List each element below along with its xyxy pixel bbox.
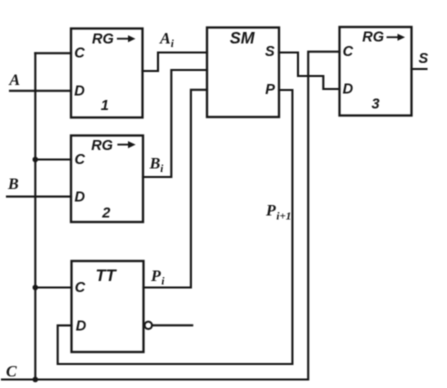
RG2 label RG with arrow — [91, 138, 135, 154]
node label Bi — [149, 156, 165, 175]
wire: bus branch to TT C — [35, 286, 71, 288]
SM pin S — [265, 44, 275, 60]
trigger TT box — [72, 261, 144, 352]
RG2 pin D — [75, 189, 86, 205]
wire: SM carry output P feedback to TT D — [58, 90, 293, 364]
wire: TT inverted output stub — [152, 324, 192, 326]
junction at RG2 C branch — [33, 157, 39, 163]
RG1 number 1 — [101, 98, 109, 114]
svg-text:C: C — [6, 364, 17, 381]
input label A — [8, 72, 20, 89]
register RG1 box — [71, 29, 143, 118]
svg-text:RG: RG — [362, 30, 384, 46]
svg-text:D: D — [74, 84, 85, 100]
svg-text:A: A — [159, 30, 171, 47]
RG1 pin C — [74, 46, 85, 62]
svg-text:B: B — [149, 156, 161, 173]
RG2 number 2 — [101, 206, 110, 222]
svg-text:D: D — [343, 82, 354, 98]
wire: RG1 output Ai to SM input 1 — [143, 53, 208, 72]
RG3 pin C — [343, 44, 354, 60]
svg-text:P: P — [265, 82, 275, 98]
TT inverted output bubble — [145, 322, 152, 329]
svg-text:A: A — [8, 72, 20, 89]
svg-text:S: S — [265, 44, 275, 60]
svg-text:C: C — [74, 46, 85, 62]
svg-text:i+1: i+1 — [276, 211, 291, 223]
svg-text:D: D — [76, 319, 87, 335]
TT pin C — [75, 280, 86, 296]
svg-text:C: C — [75, 280, 86, 296]
svg-text:SM: SM — [230, 29, 256, 47]
svg-text:TT: TT — [96, 267, 118, 285]
svg-text:RG: RG — [91, 138, 113, 154]
wire: input B to RG2 D — [7, 196, 71, 198]
wire: bus branch to RG2 C — [35, 158, 71, 160]
TT pin D — [76, 319, 87, 335]
wire: input A to RG1 D — [10, 90, 71, 92]
svg-text:C: C — [343, 44, 354, 60]
svg-text:1: 1 — [101, 98, 109, 114]
svg-text:3: 3 — [372, 97, 380, 113]
wire: bus branch to RG1 C — [35, 52, 71, 54]
RG3 number 3 — [372, 97, 380, 113]
register RG2 box — [71, 136, 143, 223]
wire: SM output S staircase to RG3 D — [279, 53, 340, 90]
node label Pi — [150, 268, 165, 288]
junction at TT C branch — [33, 285, 39, 291]
RG1 label RG with arrow — [92, 32, 135, 48]
wire: clock C bottom run then riser to RG3 C — [2, 52, 340, 380]
node label Pi+1 — [265, 203, 291, 223]
node label Ai — [159, 30, 175, 50]
RG1 pin D — [74, 84, 85, 100]
RG3 label RG with arrow — [362, 30, 405, 46]
RG2 pin C — [75, 152, 86, 168]
junction of bus with clock C bottom run — [33, 377, 39, 383]
SM pin P — [265, 82, 275, 98]
svg-text:D: D — [75, 189, 86, 205]
input label C — [6, 364, 17, 381]
svg-text:P: P — [265, 203, 276, 220]
RG3 pin D — [343, 82, 354, 98]
output label S — [419, 51, 429, 67]
input label B — [7, 176, 19, 193]
wire: clock bus vertical — [34, 53, 36, 379]
svg-text:2: 2 — [101, 206, 110, 222]
svg-text:B: B — [7, 176, 19, 193]
wire: TT output Pi to SM input 3 — [144, 90, 208, 288]
svg-text:C: C — [75, 152, 86, 168]
wire: RG3 output S — [412, 68, 427, 70]
adder SM box — [207, 28, 279, 118]
TT label — [96, 267, 118, 285]
wire: RG2 output Bi to SM input 2 — [143, 70, 207, 177]
register RG3 box — [340, 27, 412, 116]
svg-text:P: P — [150, 268, 161, 285]
svg-text:S: S — [419, 51, 429, 67]
SM label — [230, 29, 256, 47]
svg-text:RG: RG — [92, 32, 114, 48]
